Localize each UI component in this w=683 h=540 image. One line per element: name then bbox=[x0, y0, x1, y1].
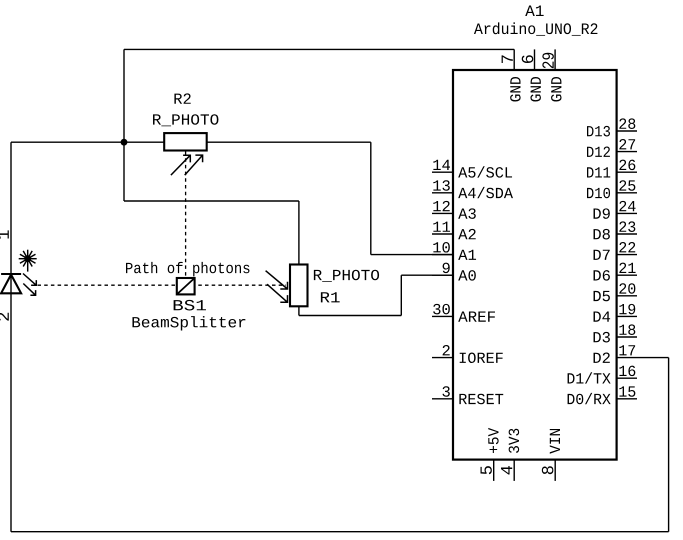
pin 17 D2 (right) bbox=[594, 345, 637, 363]
photon path: horizontal dashed LED to R1 bbox=[38, 284, 287, 286]
wire: top net from junction column to pin 7 bbox=[124, 48, 514, 50]
wire: R2 right horizontal bbox=[207, 141, 371, 143]
pin 1 (LED top) bbox=[0, 230, 9, 238]
pin 12 A3 (left) bbox=[432, 201, 476, 219]
pin 27 D12 (right) bbox=[587, 139, 637, 157]
pin 2 IOREF (left) bbox=[432, 345, 503, 363]
label Path of photons bbox=[126, 263, 133, 273]
pin 6 GND (top) bbox=[522, 49, 541, 101]
wire: LED column vertical (through LED symbol) bbox=[10, 142, 12, 532]
pin 18 D3 (right) bbox=[594, 324, 637, 342]
LED cathode bar bbox=[1, 273, 21, 275]
label Arduino_UNO_R2 value bbox=[474, 23, 483, 34]
label R_PHOTO (R1) bbox=[314, 270, 322, 280]
pin 8 VIN (bottom) bbox=[542, 429, 560, 481]
pin 11 A2 (left) bbox=[432, 222, 476, 240]
wire: vertical junction column bbox=[123, 49, 125, 201]
pin 23 D8 (right) bbox=[594, 221, 637, 239]
pin 14 A5/SCL (left) bbox=[432, 160, 512, 178]
pin 3 RESET (left) bbox=[432, 386, 503, 404]
R1 light arrow 1 bbox=[266, 271, 288, 289]
wire: into pin 10 A1 bbox=[371, 254, 453, 256]
wire: D2 pin to right net bbox=[637, 357, 669, 359]
pin 5 +5V (bottom) bbox=[481, 428, 499, 481]
label BeamSplitter bbox=[132, 317, 140, 327]
pin 15 D0/RX (right) bbox=[568, 386, 637, 404]
pin 25 D10 (right) bbox=[587, 180, 637, 198]
R1 light arrow 2 bbox=[267, 284, 288, 302]
junction dot bbox=[121, 139, 128, 146]
pin 13 A4/SDA (left) bbox=[432, 180, 513, 198]
pin 4 3V3 (bottom) bbox=[501, 429, 519, 481]
label R_PHOTO (R2) bbox=[153, 114, 161, 124]
LED triangle bbox=[1, 275, 21, 294]
wire: junction column to R1 top bbox=[124, 200, 299, 202]
pin 30 AREF (left) bbox=[432, 304, 495, 322]
wire: R1 top pin vertical bbox=[298, 201, 300, 265]
R2 light arrow 2 bbox=[185, 155, 203, 175]
pin 7 GND (top) bbox=[502, 49, 521, 101]
LED emission arrow 1 bbox=[23, 274, 36, 286]
pin 29 GND (top) bbox=[542, 49, 561, 101]
IC A1 Arduino_UNO_R2 body outline bbox=[453, 70, 617, 460]
wire: R1 bottom horizontal bbox=[299, 315, 401, 317]
wire: bottom net horizontal bbox=[11, 531, 669, 533]
pin 28 D13 (right) bbox=[587, 118, 637, 136]
wire: horizontal from LED column to junction bbox=[11, 141, 124, 143]
wire: R1 bottom pin vertical bbox=[298, 306, 300, 315]
pin 9 A0 (left) bbox=[432, 263, 476, 281]
pin 2 (LED bottom) bbox=[0, 313, 9, 321]
laser star burst bbox=[19, 250, 37, 272]
wire: right net vertical up to D2 row bbox=[668, 358, 670, 532]
pin 16 D1/TX (right) bbox=[568, 366, 637, 384]
pin 20 D5 (right) bbox=[594, 283, 637, 301]
pin 24 D9 (right) bbox=[594, 201, 637, 219]
pin 10 A1 (left) bbox=[432, 242, 476, 260]
wire: junction to R2 left bbox=[124, 141, 164, 143]
pin 22 D7 (right) bbox=[594, 242, 637, 260]
R2 light arrow 1 bbox=[171, 155, 190, 175]
wire: vertical up to A0 row bbox=[400, 275, 402, 315]
wire: into pin 9 A0 bbox=[401, 274, 453, 276]
label R1 bbox=[321, 292, 330, 302]
label R2 bbox=[174, 94, 182, 104]
resistor R1 body bbox=[290, 265, 308, 307]
resistor R2 body bbox=[164, 133, 207, 150]
pin 19 D4 (right) bbox=[594, 304, 637, 322]
pin 21 D6 (right) bbox=[594, 263, 637, 281]
LED emission arrow 2 bbox=[23, 284, 35, 296]
photon path: vertical dashed BS1 to R2 bbox=[185, 152, 187, 279]
wire: vertical down to A1 row bbox=[370, 142, 372, 254]
label A1 reference bbox=[525, 5, 535, 16]
label BS1 bbox=[174, 300, 183, 310]
pin 26 D11 (right) bbox=[587, 160, 637, 178]
beamsplitter BS1 body bbox=[177, 278, 195, 294]
